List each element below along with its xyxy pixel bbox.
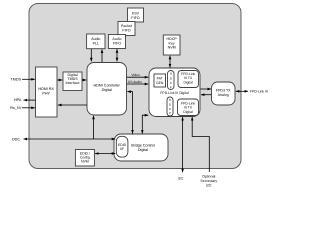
svg-text:Optional: Optional — [202, 174, 215, 178]
wire TMDS interface to controller — [82, 79, 86, 81]
block FPD-Link III TX Digital top — [178, 71, 199, 88]
wire DDC — [24, 138, 116, 140]
svg-text:I/F: I/F — [120, 147, 124, 151]
chip boundary — [29, 4, 241, 169]
svg-text:Bridge Control: Bridge Control — [131, 143, 155, 147]
svg-text:Digital: Digital — [183, 80, 193, 84]
svg-text:Analog: Analog — [218, 93, 229, 97]
block Audio PLL — [87, 34, 105, 49]
wire I2S Audio — [127, 83, 148, 85]
svg-text:Secondary: Secondary — [200, 179, 217, 183]
svg-text:P: P — [169, 111, 171, 115]
svg-text:HDMI RX: HDMI RX — [38, 87, 54, 91]
wire I2C — [182, 117, 184, 172]
svg-text:H: H — [170, 72, 172, 76]
label HPA — [14, 98, 22, 102]
block EDID / Config NVM — [75, 150, 94, 167]
svg-text:DDC: DDC — [12, 137, 20, 141]
svg-text:Interface: Interface — [66, 81, 80, 85]
svg-text:GEN: GEN — [156, 81, 164, 85]
svg-text:FPD-Link III: FPD-Link III — [250, 89, 268, 93]
block HDCP Key NVM — [163, 35, 180, 55]
svg-text:NVM: NVM — [168, 46, 176, 50]
block HDMI Controller Digital — [87, 63, 127, 116]
svg-text:Digital: Digital — [102, 88, 112, 92]
svg-text:FIFO: FIFO — [122, 29, 130, 33]
svg-text:KSV: KSV — [132, 12, 140, 16]
svg-text:HDMI Controller: HDMI Controller — [93, 83, 120, 87]
block KSV FIFO — [128, 8, 144, 22]
wire Rx_5V in — [22, 107, 35, 109]
wire Audio FIFO to controller bidirectional — [116, 49, 118, 61]
label I2C — [178, 176, 184, 180]
svg-text:H: H — [169, 98, 171, 102]
label Optional Secondary I2C — [200, 174, 217, 187]
wire controller to bridge L-connector — [127, 92, 132, 134]
svg-text:I2C: I2C — [178, 176, 184, 180]
svg-text:TMDS: TMDS — [11, 78, 22, 82]
wire container to bridge L-connector — [142, 115, 148, 133]
label I2S Audio — [128, 80, 142, 84]
wire controller up to Audio PLL — [101, 49, 103, 62]
block HDCP bottom — [167, 97, 173, 116]
svg-text:Audio: Audio — [112, 37, 121, 41]
label DDC — [12, 137, 20, 141]
svg-text:Video: Video — [131, 73, 140, 77]
wire controller to PHY — [58, 104, 87, 106]
svg-text:Digital: Digital — [138, 148, 148, 152]
svg-text:Digital: Digital — [183, 110, 193, 114]
wire HDCP Key NVM to FPD-Link container — [169, 56, 171, 68]
wire FPD3 TX to FPD-Link III output — [236, 90, 248, 92]
wire PHY to TMDS interface — [58, 79, 63, 81]
label FPD-Link III — [250, 89, 268, 93]
svg-text:HPA: HPA — [14, 98, 22, 102]
svg-text:FPD-Link III Digital: FPD-Link III Digital — [160, 91, 189, 95]
wire Audio PLL down to controller — [90, 49, 92, 61]
wire HPA out — [24, 99, 36, 101]
wire optional secondary I2C — [192, 117, 209, 172]
block FPD3 TX Analog — [212, 82, 236, 105]
svg-text:Audio: Audio — [91, 37, 100, 41]
block Bridge Control Digital — [114, 134, 168, 161]
block Audio FIFO — [108, 35, 125, 49]
block PAT GEN — [154, 74, 166, 87]
block EDID I/F — [116, 136, 128, 157]
svg-text:Packet: Packet — [121, 24, 132, 28]
wire EDID Config NVM to EDID I/F — [95, 153, 115, 155]
block HDCP top — [168, 71, 175, 90]
svg-text:I2C: I2C — [206, 183, 212, 187]
svg-text:Rx_5V: Rx_5V — [10, 106, 22, 110]
label Rx_5V — [10, 106, 22, 110]
svg-text:FPD3 TX: FPD3 TX — [216, 89, 231, 93]
svg-text:FIFO: FIFO — [113, 42, 121, 46]
wire FPD3 TX analog to container — [201, 94, 211, 96]
svg-text:I2S Audio: I2S Audio — [128, 80, 142, 84]
wire container to FPD3 TX analog — [201, 88, 212, 90]
svg-text:NVM: NVM — [81, 160, 89, 164]
label TMDS — [11, 78, 22, 82]
wire Video — [127, 76, 148, 78]
block FPD-Link III TX Digital bottom — [178, 99, 199, 116]
block Digital TMDS Interface — [63, 72, 82, 91]
wire TMDS in — [22, 78, 35, 80]
block HDMI RX PHY — [36, 67, 58, 117]
wire DDC branch to controller — [93, 116, 95, 139]
svg-text:P: P — [170, 86, 172, 90]
block Packet FIFO — [118, 22, 135, 36]
label Video — [131, 73, 140, 77]
block FPD-Link III Digital container — [149, 68, 200, 117]
svg-text:FIFO: FIFO — [131, 16, 139, 20]
svg-text:PHY: PHY — [42, 92, 50, 96]
svg-text:PLL: PLL — [93, 41, 99, 45]
